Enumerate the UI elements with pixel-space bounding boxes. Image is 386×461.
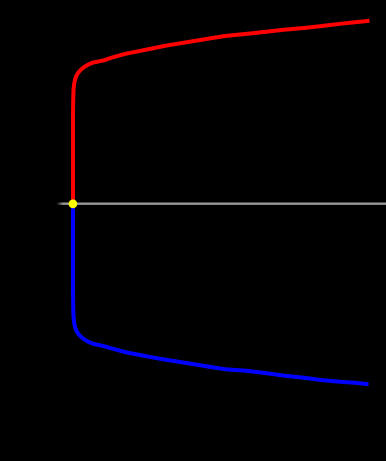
lower stable branch (blue curve)	[73, 204, 369, 384]
upper stable branch (red curve)	[73, 21, 370, 204]
x-axis equilibrium line (gray), faded left tip	[57, 202, 386, 204]
bifurcation point (yellow dot)	[69, 199, 78, 208]
